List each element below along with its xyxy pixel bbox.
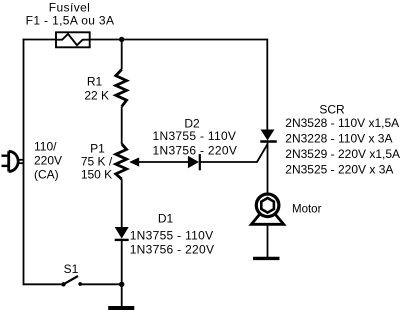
svg-text:S1: S1: [64, 262, 79, 276]
ground under motor: [253, 257, 280, 260]
label Motor: [292, 204, 322, 216]
label 110/220V (CA): [34, 140, 62, 182]
label P1: [81, 142, 113, 182]
fuse F1: [56, 32, 90, 47]
svg-text:P1: P1: [90, 142, 105, 156]
svg-text:22 K: 22 K: [84, 88, 109, 102]
diode D2: [188, 154, 200, 170]
switch S1: [24, 276, 122, 286]
wire top from fuse to right corner: [90, 39, 268, 41]
svg-text:220V: 220V: [34, 154, 62, 168]
potentiometer P1: [116, 144, 139, 179]
wire D2 to SCR gate: [200, 145, 267, 163]
svg-text:2N3528 - 110V x1,5A: 2N3528 - 110V x1,5A: [285, 116, 399, 130]
svg-text:Fusível: Fusível: [49, 1, 90, 15]
svg-text:D1: D1: [158, 212, 174, 226]
motor: [251, 194, 283, 224]
label Fusivel: [49, 1, 90, 15]
svg-text:2N3529 - 220V x1,5A: 2N3529 - 220V x1,5A: [285, 147, 400, 161]
AC plug: [2, 151, 24, 171]
wire SCR cathode to motor: [267, 142, 269, 195]
svg-text:1N3755 - 110V: 1N3755 - 110V: [153, 129, 237, 143]
wire between P1 and D1: [121, 179, 123, 227]
wire wiper to D2: [137, 161, 189, 163]
junction node top of R1 branch: [119, 37, 124, 42]
svg-text:Motor: Motor: [292, 204, 322, 216]
SCR: [260, 130, 277, 142]
wire between R1 and P1: [121, 107, 123, 145]
junction node bottom: [119, 282, 124, 287]
wire top left from AC rail to fuse: [23, 39, 56, 41]
svg-text:1N3755 - 110V: 1N3755 - 110V: [130, 229, 214, 243]
resistor R1: [116, 70, 127, 107]
svg-text:SCR: SCR: [319, 103, 345, 117]
label S1: [64, 262, 79, 276]
svg-text:2N3525 - 220V x 3A: 2N3525 - 220V x 3A: [285, 163, 393, 177]
svg-text:F1 - 1,5A ou 3A: F1 - 1,5A ou 3A: [26, 14, 115, 28]
wire D1 to bottom junction: [121, 240, 123, 306]
label D1: [130, 212, 215, 257]
svg-text:R1: R1: [87, 75, 103, 89]
svg-text:150 K: 150 K: [81, 168, 112, 182]
ground main: [108, 306, 134, 310]
label F1 value: [26, 14, 115, 28]
svg-text:1N3756 - 220V: 1N3756 - 220V: [153, 144, 238, 158]
label R1: [84, 75, 109, 103]
svg-text:1N3756 - 220V: 1N3756 - 220V: [130, 243, 215, 257]
wire right rail top to SCR: [266, 39, 268, 130]
label D2: [153, 117, 238, 158]
svg-text:2N3228 - 110V x 3A: 2N3228 - 110V x 3A: [285, 132, 392, 146]
wire left rail: [23, 39, 25, 286]
label SCR types: [285, 103, 400, 177]
diode D1: [115, 227, 129, 240]
svg-text:75 K /: 75 K /: [81, 155, 113, 169]
wire R1 branch top: [121, 40, 123, 70]
svg-text:(CA): (CA): [34, 168, 59, 182]
wire motor to ground: [267, 224, 269, 257]
svg-text:110/: 110/: [34, 140, 57, 154]
